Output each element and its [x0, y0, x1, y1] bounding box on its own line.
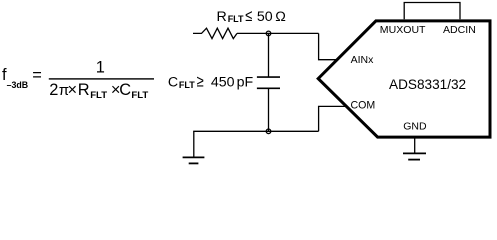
op chip ADS8331/32 outline [318, 21, 490, 137]
svg-text:COM: COM [351, 100, 376, 112]
junction node bottom [266, 129, 271, 134]
junction node top [266, 31, 271, 36]
svg-text:ADS8331/32: ADS8331/32 [389, 77, 466, 92]
svg-text:FLT: FLT [131, 90, 148, 101]
wire to left ground [193, 131, 195, 157]
svg-text:2: 2 [49, 81, 58, 99]
ground symbol chip [403, 153, 426, 159]
wire up-right to COM pin [319, 106, 346, 131]
svg-text:FLT: FLT [179, 80, 195, 90]
svg-text:C: C [168, 75, 178, 91]
svg-text:pF: pF [237, 75, 254, 91]
wire junction to capacitor top [268, 33, 270, 77]
resistor RFLT [193, 28, 237, 38]
svg-text:×: × [68, 81, 78, 99]
svg-text:≥: ≥ [197, 73, 204, 91]
bottom rail wire [193, 130, 318, 132]
wire resistor to AINx corner [237, 32, 319, 34]
svg-text:–3dB: –3dB [7, 80, 29, 90]
ground symbol left [183, 157, 205, 163]
wire capacitor bottom to bottom rail [268, 88, 270, 131]
capacitor CFLT top plate [257, 76, 280, 78]
svg-text:GND: GND [403, 121, 427, 133]
wire GND pin to ground [414, 137, 416, 153]
svg-text:1: 1 [96, 59, 105, 77]
svg-text:MUXOUT: MUXOUT [380, 24, 426, 36]
svg-text:Ω: Ω [275, 9, 286, 25]
svg-text:AINx: AINx [351, 54, 375, 66]
capacitor CFLT bottom plate [257, 87, 280, 89]
svg-text:450: 450 [211, 75, 235, 91]
wire loop MUXOUT to ADCIN [404, 3, 460, 20]
svg-text:≤: ≤ [245, 7, 252, 25]
svg-text:FLT: FLT [90, 90, 107, 101]
svg-text:ADCIN: ADCIN [443, 24, 476, 36]
svg-text:R: R [78, 81, 90, 99]
svg-text:FLT: FLT [228, 14, 244, 24]
wire down-right to AINx pin [319, 33, 337, 59]
svg-text:R: R [217, 9, 227, 25]
svg-text:C: C [119, 81, 131, 99]
formula fraction bar [49, 78, 154, 79]
svg-text:50: 50 [257, 9, 273, 25]
svg-text:=: = [32, 67, 42, 85]
